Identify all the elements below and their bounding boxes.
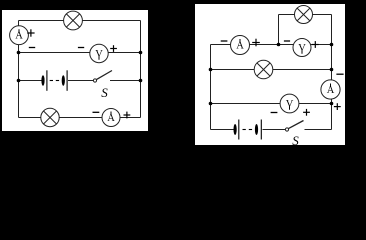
voltmeter V3 row4 xyxy=(280,94,299,113)
node row3-left xyxy=(17,79,21,83)
lamp L3 top loop xyxy=(295,6,313,24)
minus label V3 xyxy=(271,112,278,114)
ammeter A2 bottom xyxy=(102,109,120,127)
ammeter A3 row2 xyxy=(231,36,250,55)
svg-text:A: A xyxy=(327,85,335,96)
L wire top-left stub xyxy=(18,21,20,28)
node row3-right xyxy=(330,68,334,72)
R wire bottom-left xyxy=(211,129,234,131)
minus label V1 xyxy=(78,47,84,49)
L wire row2 xyxy=(19,52,141,54)
voltmeter V1 row2 xyxy=(90,44,108,62)
L wire right border xyxy=(140,21,142,118)
plus label A1 xyxy=(27,29,34,36)
R wire bottom-right xyxy=(305,129,332,131)
voltmeter V2 row2 xyxy=(293,39,311,57)
node row3-right xyxy=(139,79,143,83)
lamp L4 row3 xyxy=(254,60,273,79)
svg-text:V: V xyxy=(95,49,103,60)
L wire left border xyxy=(18,44,20,118)
lamp L2 bottom xyxy=(41,108,59,126)
R wire loop-left xyxy=(278,15,280,45)
L wire row3 after switch xyxy=(110,80,141,82)
R wire right border xyxy=(331,15,333,130)
R wire left border xyxy=(210,45,212,130)
R wire row2 xyxy=(211,44,332,46)
svg-text:V: V xyxy=(286,99,294,110)
svg-text:S: S xyxy=(292,133,299,148)
L wire top xyxy=(19,20,141,22)
R wire bottom-mid xyxy=(263,129,286,131)
minus label A1 xyxy=(29,47,35,49)
minus label A2 xyxy=(93,111,100,113)
L wire row3 battery-switch xyxy=(19,80,42,82)
battery B2 xyxy=(234,120,262,140)
plus label A4 xyxy=(334,103,341,110)
node row2-right xyxy=(139,51,143,55)
plus label A3 xyxy=(252,39,260,47)
battery B1 xyxy=(41,70,67,91)
minus label A3 xyxy=(221,40,228,42)
right panel xyxy=(195,4,345,145)
switch S1 xyxy=(93,71,112,83)
L wire row3 mid xyxy=(68,80,94,82)
plus label A2 xyxy=(124,112,131,119)
ammeter A4 right border xyxy=(321,80,340,99)
node row3-left xyxy=(209,68,213,72)
R wire loop-top xyxy=(279,14,332,16)
node loop-left xyxy=(277,43,281,47)
svg-text:A: A xyxy=(107,113,115,124)
node row2-left xyxy=(17,51,21,55)
minus label V2 xyxy=(284,40,290,42)
node row4-left xyxy=(209,102,213,106)
plus label V3 xyxy=(303,109,310,116)
L wire bottom xyxy=(19,117,141,119)
svg-text:V: V xyxy=(298,43,306,54)
node row2-right xyxy=(330,43,334,47)
svg-text:S: S xyxy=(101,85,108,100)
ammeter A1 top-left xyxy=(10,26,29,45)
switch S2 xyxy=(285,121,303,132)
R wire row4 xyxy=(211,103,332,105)
plus label V1 xyxy=(110,45,117,52)
node row4-right xyxy=(330,102,334,106)
lamp L1 top xyxy=(64,11,83,30)
svg-text:A: A xyxy=(15,31,23,42)
svg-text:A: A xyxy=(236,40,244,51)
plus label V2 xyxy=(312,41,319,48)
left panel xyxy=(2,10,148,131)
minus label A4 xyxy=(336,73,343,75)
R wire row3 xyxy=(211,69,332,71)
